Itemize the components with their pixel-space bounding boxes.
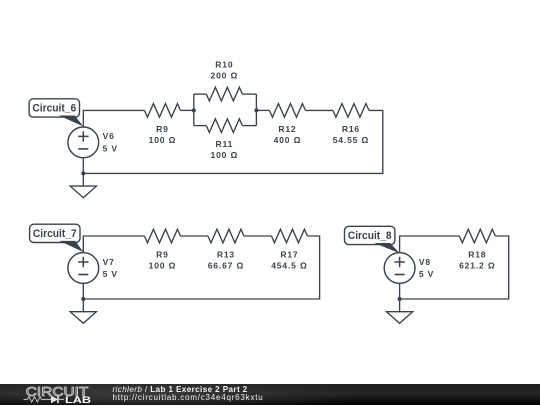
resistor R17: [271, 229, 307, 243]
resistor R9: [144, 104, 180, 118]
svg-text:Circuit_7: Circuit_7: [33, 228, 77, 240]
svg-text:Circuit_8: Circuit_8: [348, 230, 392, 242]
node B junction dot: [254, 108, 258, 112]
footer url line: [113, 393, 264, 402]
svg-text:100 Ω: 100 Ω: [149, 260, 177, 270]
wire top branch right stub: [242, 93, 256, 95]
voltage source V7 5V: [68, 253, 99, 284]
node label Circuit_7 callout: [30, 224, 80, 242]
resistor R11: [206, 119, 242, 133]
svg-text:400 Ω: 400 Ω: [274, 135, 302, 145]
footer black bar: [0, 384, 540, 405]
svg-text:R16: R16: [342, 124, 360, 134]
wire top branch left stub: [194, 93, 207, 95]
ground circuit 7: [82, 299, 84, 312]
wire bottom branch right stub: [242, 125, 256, 127]
wire V6 bottom lead: [82, 158, 84, 174]
svg-text:LAB: LAB: [65, 394, 91, 405]
wire node B to R12: [256, 109, 269, 111]
wire R12 to R16: [305, 109, 333, 111]
svg-text:5 V: 5 V: [419, 269, 434, 279]
svg-text:V8: V8: [419, 257, 431, 267]
svg-text:V7: V7: [103, 257, 115, 267]
CircuitLab logo diode: [51, 395, 58, 403]
wire bottom branch left stub: [194, 125, 207, 127]
wire parallel left vertical: [193, 94, 195, 126]
svg-text:200 Ω: 200 Ω: [211, 70, 239, 80]
wire R18 right side down and bottom rail: [400, 236, 509, 299]
svg-text:66.67 Ω: 66.67 Ω: [208, 260, 244, 270]
wire R9 to R13: [180, 235, 208, 237]
svg-text:R18: R18: [468, 249, 486, 259]
svg-text:R12: R12: [278, 124, 296, 134]
resistor R13: [208, 229, 244, 243]
wire R17 right side down and bottom rail: [83, 236, 319, 299]
ground circuit 6: [82, 173, 84, 186]
svg-text:54.55 Ω: 54.55 Ω: [333, 135, 369, 145]
wire R9 to node A: [180, 109, 193, 111]
wire parallel right vertical: [255, 94, 257, 126]
voltage source V6 5V: [68, 127, 99, 158]
CircuitLab logo resistor zigzag: [24, 396, 52, 401]
svg-text:Circuit_6: Circuit_6: [32, 103, 76, 115]
svg-text:R17: R17: [280, 249, 298, 259]
svg-text:V6: V6: [103, 131, 115, 141]
resistor R16: [333, 104, 369, 118]
svg-text:R13: R13: [217, 249, 235, 259]
svg-text:5 V: 5 V: [103, 143, 118, 153]
svg-text:100 Ω: 100 Ω: [149, 135, 177, 145]
node A junction dot: [192, 108, 196, 112]
footer author/title line: [113, 385, 248, 394]
wire R13 to R17: [244, 235, 272, 237]
svg-text:454.5 Ω: 454.5 Ω: [271, 260, 307, 270]
svg-text:R11: R11: [216, 139, 234, 149]
resistor R9 (circuit 7): [144, 229, 180, 243]
svg-text:R9: R9: [156, 249, 169, 259]
svg-text:621.2 Ω: 621.2 Ω: [459, 260, 495, 270]
svg-text:5 V: 5 V: [103, 269, 118, 279]
wire V7 bottom lead: [82, 283, 84, 299]
node label Circuit_6 callout: [29, 99, 79, 117]
wire V8 top to R18: [400, 236, 460, 253]
resistor R10: [206, 87, 242, 101]
wire V6 top to R9: [83, 110, 144, 127]
svg-text:100 Ω: 100 Ω: [211, 150, 239, 160]
node bottom junction dot circuit 6: [81, 171, 85, 175]
voltage source V8 5V: [384, 253, 415, 284]
svg-text:R10: R10: [215, 59, 233, 69]
svg-text:R9: R9: [156, 124, 169, 134]
wire R16 right side down and bottom rail: [83, 110, 383, 173]
wire V7 top to R9: [83, 236, 144, 253]
resistor R18: [459, 229, 495, 243]
wire V8 bottom lead: [399, 283, 401, 299]
resistor R12: [269, 104, 305, 118]
node bottom junction dot circuit 7: [81, 297, 85, 301]
node label Circuit_8 callout: [345, 226, 395, 244]
node bottom junction dot circuit 8: [398, 297, 402, 301]
ground circuit 8: [399, 299, 401, 312]
